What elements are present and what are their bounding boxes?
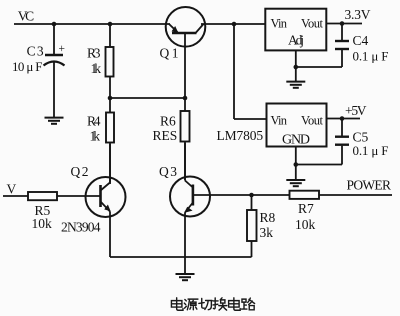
- capacitor C5: [296, 119, 349, 165]
- resistor R6: [181, 98, 190, 180]
- ground below Q3: [176, 274, 195, 280]
- capacitor C4: [296, 24, 349, 68]
- wire VC rail left: [14, 23, 170, 25]
- wire V input: [3, 195, 28, 197]
- transistor Q2 (NPN 2N3904): [86, 144, 126, 257]
- svg-text:2N3904: 2N3904: [61, 220, 101, 235]
- ground below U1 Adj: [286, 82, 305, 88]
- svg-text:10 μ F: 10 μ F: [12, 59, 43, 74]
- wire U2 Vin from node 234: [234, 24, 267, 119]
- svg-text:10k: 10k: [295, 217, 316, 232]
- resistor R3: [106, 24, 114, 98]
- svg-text:1k: 1k: [91, 61, 102, 76]
- regulator U1 (Adj 3.3V): [265, 9, 326, 51]
- svg-text:R3: R3: [87, 46, 101, 61]
- svg-text:Vout: Vout: [301, 113, 324, 127]
- caption char 路: [242, 298, 255, 310]
- node Adj-C4 junction: [294, 65, 299, 70]
- caption char 电: [171, 298, 183, 310]
- caption char 源: [184, 299, 198, 310]
- caption char 换: [213, 298, 227, 310]
- node R3-R4 junction: [108, 96, 113, 101]
- caption char 切: [199, 298, 212, 309]
- ground below U2 GND: [286, 180, 305, 186]
- svg-text:R4: R4: [87, 113, 101, 128]
- svg-text:V: V: [7, 182, 17, 197]
- wire Q3 base to POWER rail: [193, 194, 290, 196]
- svg-text:Vin: Vin: [271, 113, 288, 127]
- ground below C3: [45, 118, 64, 124]
- wire U2 GND down: [295, 147, 297, 180]
- node Q1base-R6 junction: [183, 96, 188, 101]
- svg-text:C3: C3: [27, 44, 44, 59]
- wire U1 Adj down: [295, 50, 297, 81]
- svg-text:Vin: Vin: [271, 17, 288, 31]
- wire node rail R3/R4 to Q1 base/R6: [110, 97, 185, 99]
- node R8 junction: [249, 193, 254, 198]
- svg-text:+: +: [59, 43, 66, 55]
- svg-text:C4: C4: [353, 33, 369, 48]
- resistor R5: [28, 192, 101, 200]
- svg-text:+5V: +5V: [345, 103, 367, 118]
- svg-text:VC: VC: [18, 9, 35, 24]
- svg-text:Q2: Q2: [71, 164, 89, 179]
- resistor R8: [247, 195, 257, 257]
- svg-text:R6: R6: [160, 114, 176, 129]
- svg-text:Adj: Adj: [288, 32, 304, 47]
- node 5V-C5 junction: [340, 116, 345, 121]
- wire Q3 emitter to ground: [184, 257, 186, 274]
- transistor Q1 (PNP): [166, 7, 206, 98]
- resistor R7: [290, 191, 393, 199]
- node GND-C5 junction: [294, 162, 299, 167]
- svg-text:10k: 10k: [32, 216, 53, 231]
- svg-text:0.1 μ F: 0.1 μ F: [353, 143, 389, 158]
- capacitor C3: [44, 24, 65, 117]
- svg-text:R7: R7: [298, 201, 314, 216]
- svg-text:0.1 μ F: 0.1 μ F: [353, 49, 389, 64]
- svg-text:Vout: Vout: [301, 17, 324, 31]
- node VC-R3 junction: [108, 22, 113, 27]
- node VC-C3 junction: [52, 22, 57, 27]
- svg-text:3.3V: 3.3V: [345, 7, 371, 22]
- svg-text:POWER: POWER: [347, 178, 392, 193]
- svg-text:LM7805: LM7805: [217, 128, 264, 143]
- regulator U2 LM7805: [267, 104, 327, 147]
- svg-text:R8: R8: [260, 210, 276, 225]
- caption 电源切换电路 (drawn strokes): [171, 298, 254, 310]
- svg-text:Q3: Q3: [159, 164, 177, 179]
- node 3.3V-C4 junction: [340, 21, 345, 26]
- svg-text:GND: GND: [282, 133, 310, 148]
- wire Q1 collector to regulators: [201, 23, 265, 25]
- node collector-U2 junction: [232, 22, 237, 27]
- svg-text:1k: 1k: [90, 128, 101, 143]
- transistor Q3 (NPN): [170, 143, 210, 257]
- caption char 电 (second): [229, 298, 241, 310]
- svg-text:Q1: Q1: [160, 46, 179, 61]
- wire U1 Vout to 3.3V: [326, 23, 362, 25]
- svg-text:RES: RES: [153, 128, 178, 143]
- svg-text:3k: 3k: [260, 225, 274, 240]
- wire bottom emitter rail: [110, 256, 252, 258]
- wire U2 Vout to +5V: [327, 118, 361, 120]
- resistor R4: [106, 98, 114, 184]
